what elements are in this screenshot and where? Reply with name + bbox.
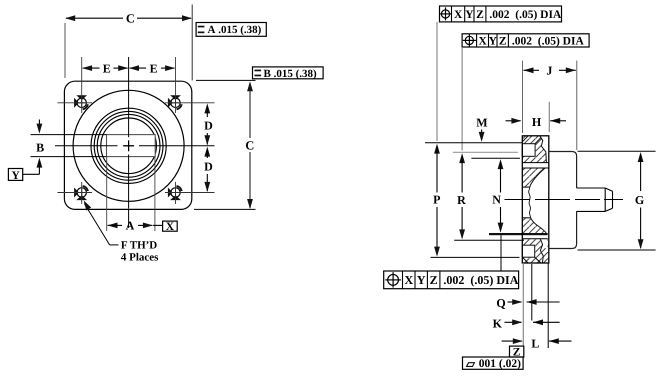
note F THD leader xyxy=(84,200,119,245)
svg-text:Y: Y xyxy=(417,273,426,287)
svg-text:Z: Z xyxy=(476,9,484,21)
flatness feature control frame .001 (.02) xyxy=(463,357,524,370)
dimension C top extension line left xyxy=(64,23,66,78)
dimension B xyxy=(36,120,44,175)
bore step edge lower xyxy=(522,217,530,219)
dimension Q xyxy=(496,296,559,310)
svg-text:Z: Z xyxy=(430,273,438,287)
bore counterbore circle xyxy=(97,114,160,177)
pilot boss circle xyxy=(73,90,184,201)
flange section hatched wedge lower-middle xyxy=(522,218,546,233)
dimension C top xyxy=(65,12,192,26)
svg-text:4 Places: 4 Places xyxy=(121,252,159,264)
flange face extension line (datum Z, gray) xyxy=(522,263,524,346)
svg-text:A: A xyxy=(126,219,135,233)
dimension H xyxy=(506,115,567,129)
bore shoulder thick line (FCF leader target) xyxy=(489,233,548,235)
dimension D top xyxy=(204,103,213,145)
svg-text:R: R xyxy=(457,193,466,207)
note F THD text xyxy=(121,239,159,263)
bore profile boundary curve lower xyxy=(531,218,547,233)
horizontal centerline (left view) xyxy=(55,145,215,147)
feature control frame position .002 upper (for P) xyxy=(439,6,562,22)
svg-text:X: X xyxy=(166,221,175,233)
dimension C top extension line right xyxy=(191,5,193,81)
feature control frame B (.015/.38) xyxy=(253,67,324,80)
hole centerline bottom-right vertical xyxy=(175,182,177,204)
dimension A extension line left xyxy=(106,157,108,231)
svg-text:J: J xyxy=(546,64,552,78)
svg-text:D: D xyxy=(204,119,213,133)
flange section outline xyxy=(522,136,549,263)
svg-text:.002 (.05) DIA: .002 (.05) DIA xyxy=(489,9,562,21)
motor body outline (rounded) xyxy=(549,152,577,249)
N top extension line xyxy=(471,157,520,159)
dimension A xyxy=(108,219,163,233)
bore circle xyxy=(101,118,157,174)
boss bottom extension line (P bottom) xyxy=(431,256,520,258)
bore cavity white pocket bottom xyxy=(540,239,547,251)
bore cavity white pocket top xyxy=(540,136,549,163)
dimension D extension line top xyxy=(165,102,215,104)
dimension L xyxy=(502,336,572,350)
svg-text:F TH’D: F TH’D xyxy=(121,239,157,251)
flange section hatched wedge upper-middle xyxy=(522,168,544,187)
bearing ring outer circle xyxy=(91,108,166,183)
mounting bolt slot upper (white band) xyxy=(522,163,549,168)
svg-text:G: G xyxy=(635,193,644,207)
bottom FCF leader xyxy=(500,235,502,271)
svg-text:001 (.02): 001 (.02) xyxy=(479,358,521,370)
spotface recess upper-left (white square) xyxy=(522,144,535,157)
dimension B extension lines (slot edges projected left) xyxy=(31,135,107,157)
section view centerline xyxy=(505,199,624,201)
feature control frame B leader xyxy=(192,79,252,81)
svg-text:X: X xyxy=(404,273,413,287)
dimension E right xyxy=(129,61,175,75)
boss face extension line (P top / M target) xyxy=(425,142,522,144)
bore profile boundary curve upper xyxy=(530,168,545,187)
svg-text:C: C xyxy=(245,138,254,152)
shaft outline xyxy=(577,188,613,211)
svg-text:E: E xyxy=(150,61,158,75)
svg-text:.002 (.05) DIA: .002 (.05) DIA xyxy=(443,273,518,287)
svg-text:P: P xyxy=(433,193,440,207)
svg-text:H: H xyxy=(532,115,542,129)
dimension D bottom xyxy=(204,147,213,192)
feature control frame A (.015/.38) xyxy=(196,23,266,37)
dimension K xyxy=(493,316,560,330)
svg-text:B: B xyxy=(36,140,44,154)
spotface recess lower-left (white square) xyxy=(522,245,534,257)
flange section chamfer diagonals xyxy=(522,136,541,263)
svg-text:Y: Y xyxy=(489,36,498,48)
svg-text:X: X xyxy=(478,36,487,48)
dimension P xyxy=(433,144,440,257)
dimension C right extension line bottom xyxy=(194,208,256,210)
svg-text:Z: Z xyxy=(499,36,507,48)
threaded hole top-right xyxy=(168,95,182,109)
datum Y leader xyxy=(23,173,40,175)
hole centerline top-left horizontal xyxy=(58,102,93,104)
datum Z feature box xyxy=(510,346,524,358)
flange section hatched block top xyxy=(522,136,549,163)
G extension line bottom xyxy=(578,249,656,251)
dimension G xyxy=(635,152,644,249)
svg-text:M: M xyxy=(476,116,487,130)
feature control frame upper leader xyxy=(436,22,438,141)
feature control frame lower leader xyxy=(461,47,463,151)
svg-text:N: N xyxy=(492,192,501,206)
bearing ring inner circle xyxy=(94,111,163,180)
datum X feature box xyxy=(163,221,178,233)
hatch pattern def xyxy=(0,0,1,1)
bore step edge upper xyxy=(522,186,530,188)
threaded hole top-left xyxy=(74,95,88,109)
threaded hole bottom-right xyxy=(168,186,182,200)
threaded hole bottom-left xyxy=(74,186,88,200)
svg-text:L: L xyxy=(531,336,539,350)
dimension C right xyxy=(245,81,254,209)
svg-text:C: C xyxy=(126,12,135,26)
center mark cross xyxy=(123,140,134,151)
G extension line top xyxy=(578,150,656,152)
svg-text:.002 (.05) DIA: .002 (.05) DIA xyxy=(512,36,585,48)
mounting bolt slot lower (white band) xyxy=(522,235,549,239)
svg-text:B .015 (.38): B .015 (.38) xyxy=(264,68,318,80)
flange back face extension line xyxy=(547,263,549,348)
datum Y feature box xyxy=(8,169,22,182)
dimension A extension line right xyxy=(154,157,156,231)
dimension J xyxy=(524,64,576,78)
flange plate outline (square, rounded corners) xyxy=(64,81,191,209)
dimension N xyxy=(492,159,503,233)
R top extension line (gray) xyxy=(453,151,518,153)
svg-text:Y: Y xyxy=(11,170,20,182)
dimension J extension right xyxy=(576,61,578,150)
feature control frame position .002 bottom xyxy=(384,271,519,289)
svg-text:D: D xyxy=(204,159,213,173)
dimension M xyxy=(476,116,487,142)
svg-text:X: X xyxy=(454,9,463,21)
dimension E left xyxy=(82,61,128,75)
svg-text:Q: Q xyxy=(496,296,505,310)
svg-text:Y: Y xyxy=(465,9,474,21)
hole centerline bottom-left vertical xyxy=(81,182,83,204)
dimension C right extension line top xyxy=(196,79,256,81)
dimension D extension line bottom xyxy=(165,192,215,194)
dimension J extension left xyxy=(522,61,524,133)
svg-text:K: K xyxy=(493,316,503,330)
flange section hatched block bottom xyxy=(522,239,549,263)
dimension E extension line right hole xyxy=(175,57,177,113)
hub slot rectangle (white filled) xyxy=(107,135,156,157)
svg-text:A .015 (.38): A .015 (.38) xyxy=(208,24,262,36)
R bottom extension line xyxy=(454,239,524,241)
dimension H extension right (gray) xyxy=(548,102,550,133)
dimension R xyxy=(457,153,466,239)
svg-text:E: E xyxy=(103,61,111,75)
bore break line middle (wavy) xyxy=(529,187,531,218)
bore profile break line top xyxy=(540,136,546,162)
dimension E extension line left hole xyxy=(81,57,83,113)
hole centerline bottom-left horizontal xyxy=(58,192,93,194)
feature control frame position .002 lower (for R) xyxy=(462,34,589,48)
vertical centerline (left view) xyxy=(128,57,130,228)
feature control frame A leader xyxy=(191,5,193,23)
bore profile break line bottom xyxy=(540,239,543,263)
boss face lower extension line xyxy=(531,264,533,321)
